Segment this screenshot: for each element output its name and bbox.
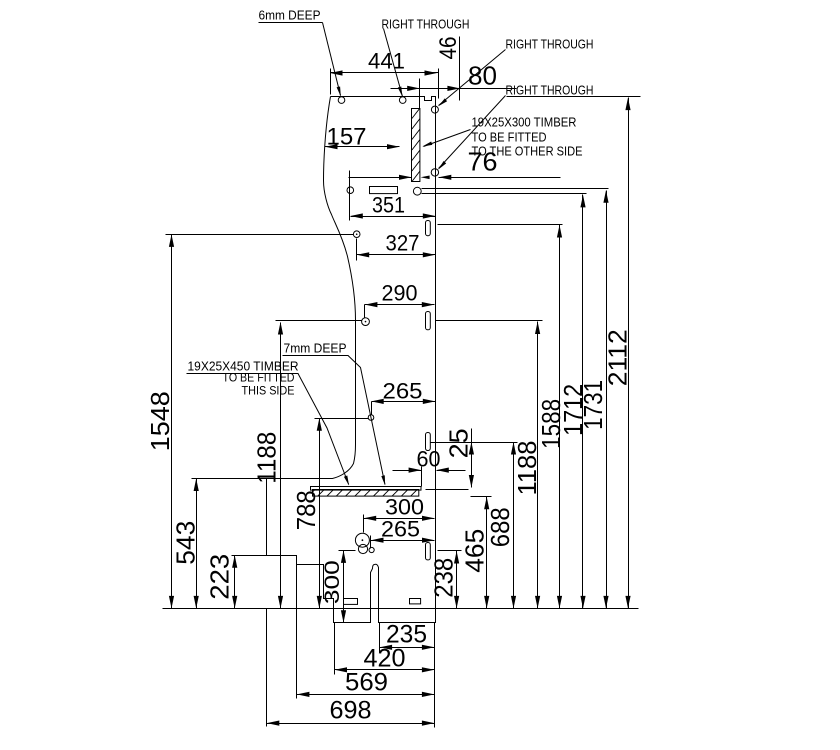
- svg-text:TO BE FITTED: TO BE FITTED: [472, 130, 547, 145]
- dim 1188 right: [537, 322, 539, 609]
- dim 2112: [628, 98, 630, 609]
- dim 569 ext: [296, 556, 298, 699]
- dim 265 lower line: [371, 540, 435, 542]
- panel outline with break line: [267, 97, 436, 623]
- timber top stub: [419, 97, 421, 109]
- svg-text:1731: 1731: [578, 380, 608, 430]
- svg-text:25: 25: [443, 428, 473, 458]
- dim 1188 left: [280, 323, 282, 609]
- leader RIGHT THROUGH 1: [384, 29, 403, 97]
- edge slot 1: [426, 221, 431, 236]
- dim 569 line: [297, 694, 435, 696]
- dim 420 ext: [334, 623, 336, 675]
- svg-text:RIGHT THROUGH: RIGHT THROUGH: [506, 37, 594, 52]
- svg-text:60: 60: [417, 447, 441, 472]
- dim 265 upper line: [372, 401, 436, 403]
- dim 420 line: [335, 669, 435, 671]
- leader 6mm DEEP: [323, 23, 341, 96]
- dim 1712: [582, 195, 584, 609]
- edge slot 2: [426, 312, 431, 330]
- dim 76 line left: [349, 177, 412, 179]
- svg-text:223: 223: [205, 554, 235, 600]
- hole top-mid: [399, 97, 406, 104]
- svg-text:RIGHT THROUGH: RIGHT THROUGH: [506, 83, 594, 98]
- leader timber 450: [298, 374, 349, 485]
- svg-text:698: 698: [330, 697, 372, 725]
- leader timber 300: [424, 130, 471, 147]
- dim 60 ext: [421, 467, 423, 487]
- keyhole small circle: [358, 544, 367, 553]
- svg-text:80: 80: [468, 61, 497, 91]
- svg-text:290: 290: [382, 281, 418, 306]
- svg-text:238: 238: [429, 558, 459, 598]
- leader 7mm DEEP: [348, 356, 385, 485]
- dim 1548: [171, 235, 173, 609]
- leader RIGHT THROUGH 3: [439, 96, 506, 169]
- svg-text:265: 265: [381, 517, 420, 542]
- dim 788: [319, 419, 321, 609]
- hole 76 row: [431, 169, 438, 176]
- dim 441 line: [331, 72, 439, 74]
- dim 300 lower ext: [363, 515, 365, 533]
- dim 290 line: [365, 304, 435, 306]
- dim 76-351 ext: [349, 171, 351, 221]
- small rectangle fitting: [370, 187, 398, 194]
- svg-text:RIGHT THROUGH: RIGHT THROUGH: [382, 17, 470, 32]
- bottom rectangle left: [344, 599, 358, 605]
- dim 157 line: [325, 146, 400, 148]
- dim 351 line: [351, 216, 436, 218]
- svg-text:327: 327: [386, 231, 420, 256]
- svg-text:TO BE FITTED: TO BE FITTED: [223, 371, 295, 385]
- dim 235 line: [380, 647, 435, 649]
- vertical timber 19x25x300 hatched: [412, 95, 422, 192]
- keyhole large circle: [355, 533, 369, 547]
- dim 46-80 line: [391, 88, 517, 90]
- svg-text:265: 265: [383, 379, 423, 404]
- svg-text:7mm DEEP: 7mm DEEP: [284, 341, 347, 356]
- dim 265 upper ext: [371, 402, 373, 415]
- dim 688: [513, 443, 515, 609]
- svg-text:19X25X300 TIMBER: 19X25X300 TIMBER: [472, 115, 577, 130]
- dim 698 ext right: [434, 623, 436, 728]
- hole right 351 row: [413, 187, 421, 195]
- dim 25 line: [471, 429, 473, 488]
- dim 25 ext: [431, 442, 518, 444]
- svg-text:1188: 1188: [252, 432, 282, 484]
- dim 1588: [559, 225, 561, 609]
- svg-text:300: 300: [321, 560, 344, 604]
- dim 46 ext: [459, 37, 461, 101]
- hole 351 row: [347, 187, 354, 194]
- svg-text:THIS SIDE: THIS SIDE: [242, 384, 295, 398]
- dim 698 ext left: [266, 609, 268, 727]
- edge slot 4: [426, 543, 431, 560]
- bottom rectangle right: [410, 599, 421, 604]
- svg-text:1548: 1548: [145, 391, 175, 451]
- dim 327 ext: [356, 239, 358, 261]
- hole 265 row: [368, 415, 374, 421]
- svg-text:441: 441: [368, 49, 405, 74]
- dim 265 lower ext: [370, 536, 372, 549]
- svg-text:TO THE OTHER SIDE: TO THE OTHER SIDE: [472, 144, 583, 159]
- dim 76 line right: [439, 177, 561, 179]
- dim 465 stub: [426, 489, 469, 491]
- hole 290 row: [362, 318, 370, 326]
- svg-text:46: 46: [435, 37, 462, 60]
- dim 223: [234, 556, 236, 609]
- dim 300 left: [343, 551, 345, 623]
- svg-text:351: 351: [372, 193, 405, 218]
- dim 543: [196, 479, 198, 609]
- svg-text:569: 569: [345, 669, 388, 697]
- dim 235 ext: [379, 623, 381, 653]
- dim 300 lower line: [364, 518, 435, 520]
- hole 327 row: [353, 231, 360, 238]
- edge slot 3: [426, 433, 431, 451]
- leader RIGHT THROUGH 2: [439, 50, 506, 106]
- svg-text:788: 788: [291, 490, 321, 530]
- svg-text:688: 688: [485, 507, 515, 547]
- dim 238: [456, 551, 458, 609]
- horizontal timber strip hatched: [308, 487, 428, 497]
- svg-text:543: 543: [171, 521, 201, 565]
- hole top-right edge: [431, 106, 438, 113]
- dim 1731: [606, 191, 608, 609]
- svg-text:157: 157: [327, 124, 367, 151]
- dim 46-80 stub: [419, 79, 421, 99]
- dim 465: [486, 497, 488, 609]
- dim 441 ext left: [330, 69, 332, 95]
- datum baseline: [163, 608, 639, 610]
- hole top-left: [338, 97, 345, 104]
- dim 60 line: [393, 470, 422, 472]
- svg-text:2112: 2112: [603, 329, 633, 386]
- keyhole tiny circle: [369, 547, 374, 552]
- svg-text:6mm DEEP: 6mm DEEP: [259, 8, 321, 23]
- dim 290 ext: [364, 305, 366, 318]
- dim 441 ext right: [438, 69, 440, 99]
- dim 698 line: [267, 723, 435, 725]
- dim 327 line: [357, 254, 436, 256]
